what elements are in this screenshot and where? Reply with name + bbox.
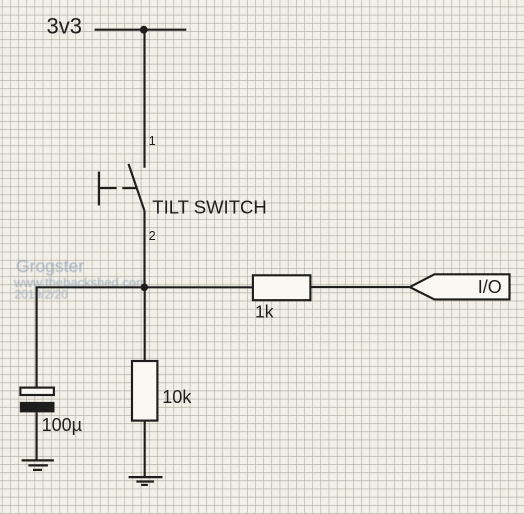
I/O port connector — [410, 274, 510, 299]
power rail 3v3 — [95, 29, 187, 31]
wire resistor 1k to I/O port — [310, 286, 409, 288]
wire resistor 10k to ground — [144, 421, 146, 478]
resistor R2 10k — [132, 361, 157, 421]
junction node dot — [141, 284, 149, 292]
tilt switch S1 — [99, 164, 145, 211]
resistor R1 1k — [253, 275, 311, 300]
wire junction to capacitor (left then down) — [37, 287, 145, 386]
junction dot on rail — [140, 26, 148, 34]
wire junction down to resistor 10k — [144, 287, 146, 361]
wire junction to resistor 1k — [144, 286, 253, 288]
ground symbol (capacitor) — [22, 460, 54, 470]
capacitor C1 bottom plate — [20, 402, 55, 413]
wire capacitor to ground — [36, 412, 38, 460]
wire rail to switch pin 1 — [143, 30, 145, 168]
capacitor C1 top plate — [20, 388, 54, 395]
ground symbol (10k) — [129, 477, 163, 485]
wire switch pin 2 to junction node — [143, 211, 145, 287]
